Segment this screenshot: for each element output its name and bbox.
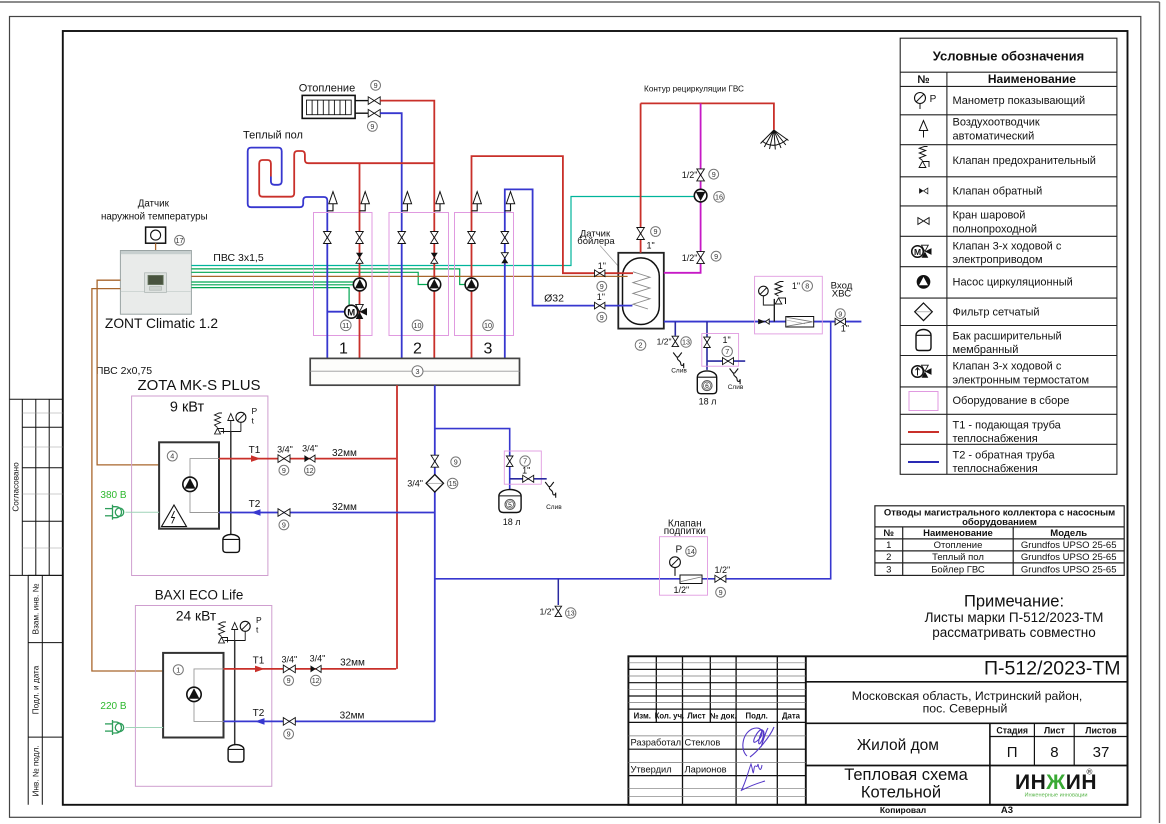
- BAXI power plug: [105, 720, 124, 735]
- BAXI safety group bracket: [225, 640, 246, 642]
- svg-text:®: ®: [1087, 768, 1093, 777]
- svg-text:32мм: 32мм: [340, 658, 365, 669]
- svg-text:9: 9: [654, 227, 658, 236]
- svg-text:Клапан 3-х ходовой с: Клапан 3-х ходовой с: [953, 240, 1062, 252]
- flow arrow T1: [251, 455, 261, 462]
- svg-text:Оборудование в сборе: Оборудование в сборе: [953, 395, 1070, 407]
- label 9: [597, 281, 607, 291]
- label 2 tank: [635, 340, 646, 351]
- BAXI internal circuit: [194, 669, 224, 722]
- green wire to pump 1 (b): [191, 284, 353, 286]
- svg-text:3: 3: [886, 564, 891, 575]
- svg-text:3/4": 3/4": [277, 444, 293, 454]
- svg-text:6: 6: [705, 383, 709, 390]
- group2 supply pipe: [433, 230, 435, 358]
- radiator return stub: [355, 112, 368, 114]
- air vent 1: [327, 192, 337, 211]
- svg-text:14: 14: [687, 547, 695, 556]
- label 8: [802, 281, 812, 291]
- svg-text:Подл. и дата: Подл. и дата: [31, 665, 40, 714]
- tank heat exchanger coil: [633, 272, 650, 309]
- signature 2: [741, 764, 765, 791]
- feed valve 9: [715, 575, 726, 582]
- ball valve group pipe 3: [398, 232, 406, 244]
- label 10 group2: [412, 320, 423, 331]
- signature 1: [743, 727, 774, 757]
- svg-text:Котельной: Котельной: [861, 784, 941, 802]
- label 6: [702, 381, 712, 391]
- flow arrow T2: [255, 718, 265, 725]
- svg-text:9: 9: [712, 170, 716, 179]
- ZOTA internal circuit: [190, 459, 219, 513]
- label 9: [651, 227, 661, 237]
- svg-text:Стадия: Стадия: [996, 726, 1028, 736]
- legend row манометр symbol: [915, 93, 937, 110]
- plug wire: [126, 511, 160, 513]
- svg-text:380 В: 380 В: [100, 490, 126, 501]
- svg-text:P: P: [256, 615, 262, 625]
- svg-text:9: 9: [287, 676, 291, 685]
- svg-text:1: 1: [176, 665, 180, 674]
- label 7: [722, 346, 732, 356]
- stamp column lines: [656, 656, 777, 805]
- tank inlet overlay red: [618, 272, 634, 274]
- label 9: [284, 676, 294, 686]
- brown power wire to ZOTA: [97, 280, 159, 465]
- left stamp lower grid: [28, 575, 63, 804]
- svg-text:Разработал: Разработал: [631, 738, 682, 748]
- svg-text:9: 9: [282, 520, 286, 529]
- group3 return pipe: [505, 189, 633, 358]
- title block main divider: [805, 656, 807, 805]
- svg-text:бойлера: бойлера: [577, 236, 615, 247]
- svg-text:Бак расширительный: Бак расширительный: [953, 331, 1062, 343]
- sensor circle: [151, 230, 161, 240]
- ИНЖИН logo: [1015, 768, 1097, 799]
- legend row кран шаровой symbol: [918, 218, 929, 225]
- svg-text:Кран шаровой: Кран шаровой: [953, 210, 1026, 222]
- svg-text:9: 9: [719, 588, 723, 597]
- group 1 equipment box: [314, 213, 373, 336]
- svg-text:Стеклов: Стеклов: [685, 738, 721, 748]
- group 7 box (tank 5): [504, 451, 541, 484]
- blue branch to 3-way valve: [327, 311, 344, 313]
- legend row клапан 3-х ходовой с электроприводом symbol: [912, 245, 932, 258]
- BAXI T2 return: [224, 720, 435, 722]
- svg-text:Тепловая схема: Тепловая схема: [844, 766, 968, 784]
- svg-text:мембранный: мембранный: [953, 344, 1019, 356]
- tank hot water outlet pipe: [640, 103, 642, 252]
- svg-text:Фильтр сетчатый: Фильтр сетчатый: [953, 306, 1040, 318]
- svg-text:13: 13: [567, 609, 575, 618]
- safety valve: [775, 282, 786, 305]
- air vent 2: [360, 192, 370, 211]
- group 3 equipment box: [455, 213, 514, 336]
- feed gauge: [670, 557, 681, 568]
- svg-text:1": 1": [647, 241, 655, 251]
- svg-text:Наименование: Наименование: [988, 72, 1076, 86]
- ZONT Climatic controller: [120, 251, 191, 315]
- 3-way valve M drive: [345, 305, 358, 318]
- riser ball valve: [431, 455, 439, 467]
- svg-text:9: 9: [838, 309, 842, 318]
- sensor wire: [155, 243, 157, 250]
- svg-text:2: 2: [413, 341, 422, 358]
- svg-text:T1: T1: [253, 655, 265, 666]
- plug wire: [126, 727, 164, 729]
- svg-text:1: 1: [339, 341, 348, 358]
- svg-text:Подл.: Подл.: [746, 712, 768, 721]
- svg-text:Инв. № подл.: Инв. № подл.: [31, 746, 40, 797]
- svg-text:3/4": 3/4": [407, 479, 423, 489]
- label 9: [716, 587, 726, 597]
- svg-text:Т1 - подающая труба: Т1 - подающая труба: [953, 419, 1062, 431]
- ZOTA safety valve: [215, 413, 224, 434]
- svg-text:9: 9: [374, 81, 378, 90]
- valve BAXI T1: [283, 665, 295, 673]
- svg-text:3/4": 3/4": [281, 655, 297, 665]
- BAXI air vent small: [232, 623, 238, 630]
- svg-text:4: 4: [170, 452, 174, 461]
- label 17: [175, 235, 185, 245]
- label 1: [173, 665, 183, 675]
- legend row Т1 symbol: [908, 431, 939, 433]
- label 10 group3: [483, 320, 494, 331]
- manometer: [759, 286, 769, 296]
- air vent 6: [505, 192, 515, 211]
- svg-text:№: №: [917, 74, 929, 86]
- label 9: [597, 312, 607, 322]
- make-up feed pipe from ХВС: [435, 322, 831, 579]
- drain symbol: [673, 353, 684, 369]
- svg-text:1": 1": [722, 335, 730, 345]
- tank6 drain branch: [707, 360, 745, 362]
- drain valve 13 branch: [557, 579, 559, 605]
- svg-text:9: 9: [287, 730, 291, 739]
- svg-text:2: 2: [639, 341, 643, 350]
- svg-text:Манометр показывающий: Манометр показывающий: [953, 95, 1086, 107]
- ZOTA gauge: [236, 412, 246, 431]
- svg-text:1/2": 1/2": [673, 585, 689, 595]
- svg-text:Инженерные инновации: Инженерные инновации: [1025, 793, 1088, 799]
- svg-text:Лист: Лист: [687, 712, 706, 721]
- doc number row line: [806, 681, 1128, 683]
- svg-text:M: M: [347, 307, 355, 318]
- svg-text:Бойлер ГВС: Бойлер ГВС: [931, 564, 985, 575]
- inlet valve: [835, 318, 845, 325]
- expansion tank branch pipe: [706, 322, 708, 370]
- air vent 4: [434, 192, 444, 211]
- tank sensor overlay brown: [618, 275, 628, 277]
- collector supply drop pipe: [396, 385, 398, 669]
- svg-text:Теплый пол: Теплый пол: [932, 552, 984, 563]
- cold water main line: [664, 321, 862, 323]
- flow arrow T2: [251, 509, 261, 516]
- BAXI pump: [187, 687, 201, 701]
- object/stage row line: [806, 765, 1128, 767]
- svg-text:Примечание:: Примечание:: [964, 593, 1064, 611]
- svg-text:1": 1": [598, 261, 606, 271]
- svg-text:1/2": 1/2": [540, 606, 555, 616]
- svg-text:Модель: Модель: [1050, 528, 1087, 539]
- ZOTA safety group bracket: [221, 431, 241, 433]
- svg-text:3/4": 3/4": [310, 654, 326, 664]
- check valve on cold main: [758, 319, 769, 324]
- pump 3: [465, 278, 478, 291]
- svg-text:Кол. уч.: Кол. уч.: [655, 712, 685, 721]
- legend table grid: [900, 38, 1117, 474]
- group1 supply pipe: [359, 163, 361, 358]
- svg-text:3: 3: [416, 367, 420, 376]
- stage col dividers: [1033, 723, 1035, 765]
- brown wire to boiler sensor: [191, 275, 627, 277]
- radiator: [302, 95, 355, 118]
- svg-text:7: 7: [523, 457, 527, 466]
- BAXI gauge: [240, 621, 250, 640]
- svg-text:Насос циркуляционный: Насос циркуляционный: [953, 277, 1073, 289]
- svg-text:18 л: 18 л: [503, 517, 521, 527]
- svg-text:Слив: Слив: [728, 384, 744, 391]
- legend row оборудование в сборе symbol: [909, 392, 938, 411]
- svg-text:Воздухоотводчик: Воздухоотводчик: [953, 117, 1040, 129]
- label 9: [709, 169, 719, 179]
- svg-text:9: 9: [714, 252, 718, 261]
- valve 9 radiator supply: [368, 97, 380, 105]
- svg-text:Grundfos UPSO 25-65: Grundfos UPSO 25-65: [1021, 564, 1117, 575]
- strainer filter: [786, 317, 814, 328]
- drain symbol: [545, 482, 556, 498]
- svg-text:ИНЖИН: ИНЖИН: [1015, 771, 1097, 794]
- ball valve group pipe 2: [356, 232, 364, 244]
- ZOTA air vent small: [228, 414, 234, 421]
- svg-text:2: 2: [886, 552, 891, 563]
- collector manifold: [310, 358, 519, 385]
- stamp row lines: [628, 669, 805, 775]
- label 12: [311, 675, 321, 685]
- svg-text:электронным термостатом: электронным термостатом: [953, 374, 1090, 386]
- svg-text:T1: T1: [249, 445, 261, 456]
- shower head: [761, 130, 789, 150]
- BAXI boiler body: [163, 653, 223, 738]
- svg-text:П-512/2023-ТМ: П-512/2023-ТМ: [984, 658, 1121, 680]
- svg-text:9: 9: [370, 122, 374, 131]
- group 8 box (ХВС inlet unit): [755, 276, 823, 334]
- BAXI safety pipe: [234, 641, 236, 745]
- svg-text:15: 15: [449, 479, 457, 488]
- svg-text:12: 12: [306, 466, 314, 475]
- svg-text:18 л: 18 л: [699, 397, 717, 407]
- svg-text:Жилой дом: Жилой дом: [857, 737, 939, 754]
- pump table grid: [875, 506, 1124, 576]
- label 14: [686, 546, 696, 556]
- legend row Т2 symbol: [908, 461, 939, 463]
- svg-text:А3: А3: [1001, 805, 1013, 816]
- svg-text:№ док.: № док.: [710, 712, 737, 721]
- valve ZOTA T1: [278, 455, 290, 463]
- svg-text:Условные обозначения: Условные обозначения: [933, 49, 1084, 64]
- svg-text:Листы марки П-512/2023-ТМ: Листы марки П-512/2023-ТМ: [925, 610, 1104, 625]
- svg-text:Слив: Слив: [546, 504, 562, 511]
- svg-text:16: 16: [715, 192, 723, 201]
- svg-text:оборудованием: оборудованием: [962, 517, 1037, 528]
- label 9: [371, 80, 381, 90]
- left stamp upper grid: [10, 399, 63, 575]
- teal wire to recirculation pump: [191, 197, 694, 266]
- floor heating return coil (blue): [248, 148, 328, 230]
- green wire to 3-way valve M: [191, 288, 349, 306]
- air vent 5: [472, 192, 482, 211]
- svg-text:12: 12: [312, 676, 320, 685]
- svg-text:Клапан обратный: Клапан обратный: [953, 186, 1043, 198]
- flow arrow T1: [255, 666, 265, 673]
- svg-text:Датчик: Датчик: [138, 199, 170, 210]
- page top edge line: [0, 1, 1160, 3]
- legend row клапан обратный symbol: [919, 188, 928, 194]
- svg-text:8: 8: [1050, 744, 1058, 761]
- svg-text:наружной температуры: наружной температуры: [101, 212, 208, 223]
- svg-text:Наименование: Наименование: [923, 528, 993, 539]
- label 9: [451, 457, 461, 467]
- svg-text:10: 10: [484, 321, 492, 330]
- svg-text:10: 10: [414, 321, 422, 330]
- brown power wire to BAXI: [92, 289, 163, 671]
- svg-text:1: 1: [886, 540, 891, 551]
- legend row клапан 3-х ходовой с термостатом symbol: [912, 365, 932, 378]
- label 9: [368, 122, 378, 132]
- expansion tank 6: [697, 371, 716, 394]
- svg-text:Grundfos UPSO 25-65: Grundfos UPSO 25-65: [1021, 552, 1117, 563]
- ball valve group pipe 4: [431, 232, 439, 244]
- expansion tank 5: [499, 490, 521, 513]
- green wire to pump 3: [191, 269, 465, 285]
- svg-text:ПВС 2x0,75: ПВС 2x0,75: [96, 365, 152, 377]
- branch to expansion tank 5: [435, 429, 510, 490]
- green wire to pump 1 (a): [191, 281, 353, 283]
- svg-text:13: 13: [682, 338, 690, 347]
- svg-text:7: 7: [725, 347, 729, 356]
- ball valve group pipe 1: [324, 232, 332, 244]
- svg-text:Ларионов: Ларионов: [685, 764, 727, 774]
- svg-text:электроприводом: электроприводом: [953, 254, 1043, 266]
- svg-text:Изм.: Изм.: [634, 712, 651, 721]
- svg-text:Копировал: Копировал: [880, 805, 926, 815]
- gauge bracket: [763, 296, 774, 305]
- valve BAXI T2: [283, 718, 295, 726]
- label 16: [714, 192, 725, 203]
- svg-text:ZONT Climatic 1.2: ZONT Climatic 1.2: [105, 316, 218, 331]
- ZOTA power plug: [105, 505, 124, 520]
- radiator supply stub: [355, 100, 368, 102]
- BAXI T1 supply: [224, 668, 397, 670]
- floor heating supply coil (red): [259, 151, 434, 197]
- group2 return pipe: [401, 230, 403, 358]
- svg-text:Т2 - обратная труба: Т2 - обратная труба: [953, 449, 1056, 461]
- drain branch with valve 13: [674, 322, 676, 336]
- svg-text:9: 9: [600, 313, 604, 322]
- svg-text:Дата: Дата: [782, 712, 801, 721]
- svg-text:24 кВт: 24 кВт: [176, 609, 217, 624]
- svg-text:Отопление: Отопление: [299, 83, 355, 95]
- check valve ZOTA T1: [304, 455, 315, 462]
- tank outlet overlay blue: [618, 305, 633, 307]
- svg-text:1": 1": [792, 281, 800, 291]
- svg-text:теплоснабжения: теплоснабжения: [953, 433, 1038, 445]
- label 15: [447, 478, 457, 488]
- label 9: [279, 465, 289, 475]
- ZOTA T2 return: [219, 512, 435, 514]
- green wire to pump 2: [191, 272, 428, 284]
- svg-text:Лист: Лист: [1044, 726, 1065, 736]
- svg-text:Слив: Слив: [671, 368, 687, 375]
- svg-text:11: 11: [342, 321, 349, 330]
- check valve group3 return: [501, 253, 508, 264]
- svg-text:ХВС: ХВС: [832, 289, 851, 300]
- valve 9 radiator return: [368, 109, 380, 117]
- svg-text:П: П: [1007, 744, 1018, 761]
- drain symbol: [730, 369, 741, 385]
- svg-text:Листов: Листов: [1085, 726, 1117, 736]
- svg-text:Клапан предохранительный: Клапан предохранительный: [953, 155, 1096, 167]
- recirculation pipe (magenta): [664, 103, 701, 272]
- pressure reducer: [680, 575, 702, 584]
- address row line: [806, 722, 1128, 724]
- tank capsule: [623, 258, 660, 325]
- ZOTA expansion tank: [223, 534, 240, 552]
- recirculation pump 16: [694, 189, 707, 202]
- group1 return pipe: [326, 230, 328, 358]
- 3-way valve body: [356, 304, 367, 319]
- label 11: [341, 320, 352, 331]
- label 7: [520, 456, 530, 466]
- svg-text:3: 3: [484, 341, 493, 358]
- label 9: [835, 309, 845, 319]
- svg-text:9: 9: [600, 282, 604, 291]
- pump 2: [428, 278, 441, 291]
- svg-text:1": 1": [597, 292, 605, 302]
- check valve BAXI T1: [311, 665, 322, 672]
- svg-text:1/2": 1/2": [657, 336, 672, 346]
- sensor leader line: [600, 246, 624, 273]
- svg-text:220 В: 220 В: [100, 701, 126, 712]
- svg-text:1": 1": [841, 324, 849, 334]
- group3 supply pipe: [472, 156, 634, 358]
- BAXI safety valve: [219, 622, 228, 643]
- label 13: [566, 608, 576, 618]
- svg-text:32мм: 32мм: [332, 448, 357, 459]
- svg-text:ZOTA MK-S PLUS: ZOTA MK-S PLUS: [137, 377, 260, 394]
- ZOTA boiler body: [159, 442, 219, 528]
- svg-text:37: 37: [1093, 744, 1110, 761]
- valve tank5 branch: [506, 456, 513, 466]
- boiler tank: [618, 253, 664, 329]
- svg-text:T2: T2: [253, 708, 265, 719]
- legend row клапан предохранительный symbol: [919, 147, 929, 168]
- legend row фильтр symbol: [915, 303, 933, 321]
- DHW top line to shower: [641, 103, 774, 129]
- legend row бак расширительный symbol: [916, 330, 931, 351]
- svg-text:Клапан 3-х ходовой с: Клапан 3-х ходовой с: [953, 361, 1062, 373]
- valve on tank6 branch: [704, 337, 711, 347]
- group 14 box: [660, 537, 708, 596]
- svg-text:17: 17: [176, 236, 184, 245]
- label 12: [305, 465, 315, 475]
- svg-text:пос. Северный: пос. Северный: [923, 702, 1008, 716]
- svg-text:ПВС 3x1,5: ПВС 3x1,5: [213, 252, 264, 264]
- svg-text:9: 9: [282, 466, 286, 475]
- stage header line: [990, 736, 1128, 738]
- tank5 drain branch: [510, 478, 547, 480]
- check valve group2 supply: [431, 253, 438, 264]
